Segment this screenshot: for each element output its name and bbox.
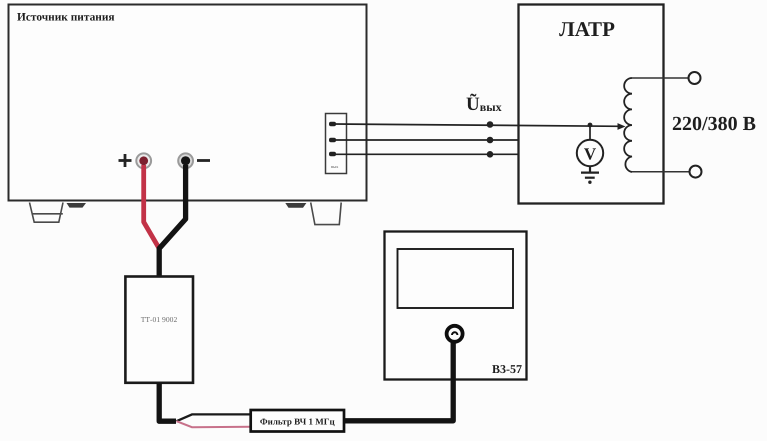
node dot on wire 1 [487, 121, 494, 128]
svg-text:Ũвых: Ũвых [466, 93, 502, 115]
PSU left foot [30, 203, 64, 223]
node dot on wire 2 [487, 137, 494, 144]
black wire below probe box [159, 383, 176, 421]
wire: phase 1 (to autotransformer wiper) [333, 124, 620, 126]
terminal + (red binding post) [136, 153, 151, 168]
svg-text:вых: вых [331, 164, 339, 169]
probe clip lower lead (red) [177, 421, 252, 427]
power supply box (Источник питания) [9, 5, 367, 201]
black wire from - terminal [159, 165, 185, 277]
svg-text:ТТ-01 9002: ТТ-01 9002 [141, 315, 178, 324]
connector pins [329, 122, 336, 156]
wire: filter to millivoltmeter input [344, 341, 453, 421]
PSU right small pad [285, 203, 306, 208]
output terminal bottom [690, 166, 702, 178]
wire: tap to voltmeter [589, 125, 591, 140]
millivoltmeter box В3-57 [385, 232, 527, 380]
wire: line 2 [333, 139, 519, 141]
voltmeter V [577, 140, 603, 166]
node dot on wire 3 [487, 151, 494, 158]
output terminal top [689, 72, 701, 84]
wire: line 3 [333, 153, 519, 155]
svg-text:ЛАТР: ЛАТР [559, 17, 615, 41]
meter display window [398, 249, 514, 308]
connector center pin [452, 332, 457, 335]
svg-text:Источник питания: Источник питания [17, 12, 115, 24]
red wire from + terminal [144, 165, 160, 249]
HF filter box [251, 410, 344, 432]
current probe box ТТ-01 9002 [125, 277, 193, 383]
autotransformer coil winding [624, 78, 632, 172]
terminal - (black binding post) [178, 153, 193, 168]
svg-text:Фильтр ВЧ 1 МГц: Фильтр ВЧ 1 МГц [260, 416, 336, 426]
junction dot at voltmeter tap [588, 123, 593, 128]
wiper arrowhead [618, 123, 626, 130]
terminal - label [197, 159, 210, 162]
PSU right foot [311, 203, 342, 225]
PSU left small pad [67, 203, 87, 208]
svg-text:В3-57: В3-57 [492, 362, 522, 376]
wire: coil bottom to output terminal [632, 171, 690, 173]
probe clip upper lead (black) [177, 414, 252, 421]
terminal + label [119, 154, 132, 167]
output connector block on PSU right side [326, 114, 347, 174]
ground symbol [581, 166, 599, 178]
input connector (BNC) [447, 326, 463, 342]
wire: coil top to output terminal [632, 77, 689, 79]
svg-text:220/380 В: 220/380 В [672, 113, 756, 135]
svg-text:V: V [584, 145, 597, 164]
autotransformer box ЛАТР [519, 5, 664, 204]
